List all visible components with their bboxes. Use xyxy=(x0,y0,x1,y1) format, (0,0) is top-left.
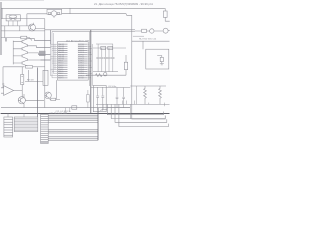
wire rail4 left xyxy=(1,30,45,32)
wire row y75.2 xyxy=(86,74,126,76)
cap stub 2 xyxy=(69,108,71,112)
transistor VT1a xyxy=(13,39,27,47)
wire vert x37.5 xyxy=(37,68,39,118)
IC left bus verts xyxy=(51,30,56,78)
wire corner stub xyxy=(103,104,107,109)
wire row y87.5 xyxy=(91,87,130,89)
wire rail4 lower xyxy=(52,31,135,33)
transistor Q1 legs xyxy=(29,23,45,31)
wire top rail 2 xyxy=(27,14,132,16)
wire M1 stub xyxy=(53,16,55,18)
svg-text:21. Дви клноца 78-05/9(7)99999: 21. Дви клноца 78-05/9(7)9999999 - 99-99… xyxy=(94,2,153,6)
wire bottom of array xyxy=(3,66,25,68)
IC row bands xyxy=(58,44,68,78)
bus wires group2 xyxy=(48,129,98,133)
IC right pin stubs xyxy=(88,44,92,78)
IC DD1 xyxy=(57,42,88,80)
wire row y104.4 xyxy=(96,103,170,105)
osc box xyxy=(43,70,48,85)
lamp HL1 xyxy=(150,29,154,33)
transistor Q2 xyxy=(18,97,25,104)
wire U3 feed xyxy=(142,41,144,49)
wire alarm row segs xyxy=(135,30,170,32)
wire right row y86 xyxy=(130,85,166,87)
wire rail4 upper xyxy=(45,29,135,31)
block A1 hatched xyxy=(14,117,38,132)
ground in U3 xyxy=(160,64,164,65)
junction bundle xyxy=(35,41,51,60)
transistor Q3 legs xyxy=(45,92,50,98)
wire step x70 xyxy=(69,8,71,13)
connector X2 pins xyxy=(4,120,13,136)
transistor Q1 xyxy=(29,24,36,31)
relay KV1 contact box xyxy=(142,29,147,32)
resistor R13 zigzag xyxy=(144,86,147,104)
cap C10 branch xyxy=(122,88,125,108)
buzzer BA1 xyxy=(163,28,168,33)
resistor R5 xyxy=(51,98,56,100)
IC DD1 pin text right xyxy=(78,44,84,80)
wire K1 stubs xyxy=(9,21,18,26)
resistor R1 xyxy=(1,37,21,39)
motor M1 xyxy=(47,9,62,14)
IC DD1 pin text left xyxy=(58,43,64,80)
wire top rail 3 xyxy=(1,18,45,20)
wire vert x19.8 xyxy=(19,26,21,31)
tick marks on 104 row xyxy=(149,103,165,107)
wire left vert to opamp xyxy=(2,67,4,88)
connector X3 pins xyxy=(41,116,49,142)
wire y107.6 ext xyxy=(107,107,130,109)
wire A1 stub xyxy=(23,114,25,118)
wire row y81.5 xyxy=(25,81,43,83)
wire vert x136.4 xyxy=(135,86,137,104)
wire faint row xyxy=(133,35,144,37)
wire dark bus xyxy=(90,30,92,114)
wire vert B xyxy=(50,30,52,44)
wire long vert C xyxy=(132,15,166,119)
wire top rail 1 xyxy=(1,7,165,9)
wire right bus verts xyxy=(88,32,90,87)
transistor VT1c xyxy=(13,53,27,61)
wire node row xyxy=(1,25,29,27)
transistor VT1d xyxy=(13,60,27,66)
wire row y48 xyxy=(93,44,126,48)
wire crystal down xyxy=(21,85,23,97)
resistor R9 xyxy=(108,46,113,49)
connector X1 xyxy=(163,11,167,17)
top edge artifact xyxy=(0,0,44,2)
cap stub 1 xyxy=(64,108,66,114)
connector X2 xyxy=(4,117,13,137)
box PSU xyxy=(93,86,106,112)
wire vert x28.7 xyxy=(28,70,30,82)
resistor R3 xyxy=(157,56,162,58)
svg-text:XP2 РАЗЪЕМ 16: XP2 РАЗЪЕМ 16 xyxy=(50,112,66,115)
left bus xyxy=(0,2,2,55)
nested L wire 3 xyxy=(115,104,167,122)
wire Q2 out xyxy=(25,99,44,101)
wire R1 to Q column xyxy=(27,38,32,41)
pin mark xyxy=(5,38,6,42)
svg-text:18 XT2: 18 XT2 xyxy=(78,77,84,79)
wire vert x44.8 xyxy=(44,19,46,108)
svg-text:C8 100n: C8 100n xyxy=(108,86,117,88)
resistor R10 vertical xyxy=(124,62,127,69)
svg-text:RST 9: RST 9 xyxy=(58,77,63,79)
cap C7 xyxy=(101,87,104,110)
crystal ZQ1 xyxy=(21,67,23,75)
wire cap bank bottom xyxy=(93,71,118,73)
connector X3 xyxy=(41,114,49,143)
op-amp inputs xyxy=(1,88,4,93)
relay K1 coil xyxy=(9,15,17,18)
op-amp output xyxy=(14,90,23,92)
junction circle xyxy=(104,73,107,76)
bus wires group1 xyxy=(48,115,98,140)
box U3 xyxy=(146,49,169,69)
cap C9 branch xyxy=(116,88,119,108)
transistor Q2 legs xyxy=(18,94,24,108)
svg-text:DD1 ATmega8515-16PI: DD1 ATmega8515-16PI xyxy=(66,39,89,42)
svg-text:R7 1M: R7 1M xyxy=(27,80,34,82)
op-amp symbol marks xyxy=(2,83,4,85)
svg-text:HL2 R12 VD5 C14: HL2 R12 VD5 C14 xyxy=(139,39,157,41)
wire vert x56.7 xyxy=(56,80,58,99)
motor M1 body xyxy=(51,11,56,16)
resistor R8 xyxy=(101,46,106,49)
wire rail2 left drop xyxy=(26,14,28,26)
resistor R4 xyxy=(26,66,33,69)
transistor Q3 xyxy=(45,92,52,99)
capacitor bank C1-C5 xyxy=(96,44,114,72)
motor M1 side pads xyxy=(48,12,50,14)
small comp on row xyxy=(72,106,77,109)
nested L wire 2 xyxy=(111,104,165,118)
wire fuse row xyxy=(132,40,170,42)
op-amp DA1 xyxy=(4,86,14,96)
resistor R14 zigzag xyxy=(159,86,162,104)
relay K1 xyxy=(6,15,20,21)
wire left vert xyxy=(4,26,6,38)
bus vert left xyxy=(12,41,14,65)
IC left pin stubs xyxy=(51,44,58,78)
transistor VT1b xyxy=(13,46,27,54)
bus wires group3 xyxy=(48,137,98,140)
nested L wire 4 xyxy=(119,104,168,126)
wire X2 top xyxy=(7,114,9,118)
transistor array VT1 xyxy=(13,39,50,66)
resistor R12 vertical xyxy=(87,95,90,103)
cap C6 xyxy=(96,87,99,110)
relay K1 contacts xyxy=(10,18,12,20)
tick verts on row xyxy=(123,101,135,120)
nested L wire 1 xyxy=(107,104,163,114)
bus vert right xyxy=(97,108,99,140)
wire R5 xyxy=(50,98,60,100)
block A1 hatch xyxy=(14,119,38,131)
wire long row y113.5 dark xyxy=(1,113,170,115)
wire vert left x2 xyxy=(1,8,3,18)
wire X1 vert xyxy=(165,8,170,21)
wire long row y107.6 xyxy=(1,107,130,109)
resistor R11 zigzag xyxy=(96,74,103,77)
collector drops xyxy=(28,39,41,60)
